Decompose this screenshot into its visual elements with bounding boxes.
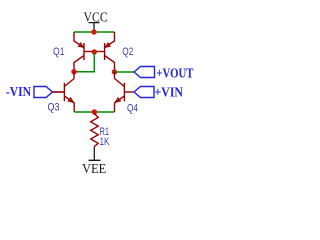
power symbol VCC <box>89 23 100 32</box>
node tail junction <box>92 109 97 114</box>
port +VIN <box>134 87 154 98</box>
svg-text:Q3: Q3 <box>48 101 60 113</box>
node Q1 collector junction <box>71 69 76 74</box>
transistor Q4 <box>115 79 135 113</box>
power symbol VEE <box>89 147 101 161</box>
transistor Q1 <box>74 32 94 72</box>
svg-text:+VOUT: +VOUT <box>156 66 194 81</box>
wire Q2 collector down to Q4 <box>114 72 116 79</box>
svg-text:+VIN: +VIN <box>155 86 184 101</box>
svg-text:1K: 1K <box>100 136 110 148</box>
node base junction <box>92 49 97 54</box>
transistor Q2 <box>94 32 114 72</box>
wire diode connection (Q1 base to Q1 collector) <box>74 52 94 72</box>
wire Q1 collector down to Q3 <box>73 72 75 79</box>
port -VIN <box>34 87 53 98</box>
wire emitter tail <box>74 111 114 113</box>
svg-text:Q2: Q2 <box>122 46 133 58</box>
svg-text:Q1: Q1 <box>53 46 65 58</box>
wire -VIN port to Q3 base <box>53 91 65 93</box>
wire Q2 collector to VOUT port <box>115 71 135 73</box>
resistor R1 <box>91 114 99 147</box>
wire VCC rail <box>74 31 115 33</box>
svg-text:Q4: Q4 <box>127 103 138 115</box>
port +VOUT <box>134 67 155 78</box>
node VCC junction <box>91 29 96 34</box>
svg-text:VCC: VCC <box>84 10 108 25</box>
svg-text:-VIN: -VIN <box>6 85 31 100</box>
node Q2 collector junction <box>112 69 117 74</box>
svg-text:VEE: VEE <box>82 162 106 177</box>
transistor Q3 <box>53 79 75 113</box>
